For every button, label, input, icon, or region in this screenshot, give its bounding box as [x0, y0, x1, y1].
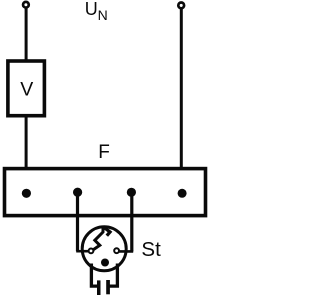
svg-text:U: U: [85, 0, 98, 19]
svg-text:N: N: [98, 7, 108, 23]
svg-text:St: St: [141, 238, 161, 261]
svg-text:F: F: [98, 142, 110, 163]
svg-text:V: V: [20, 79, 33, 101]
